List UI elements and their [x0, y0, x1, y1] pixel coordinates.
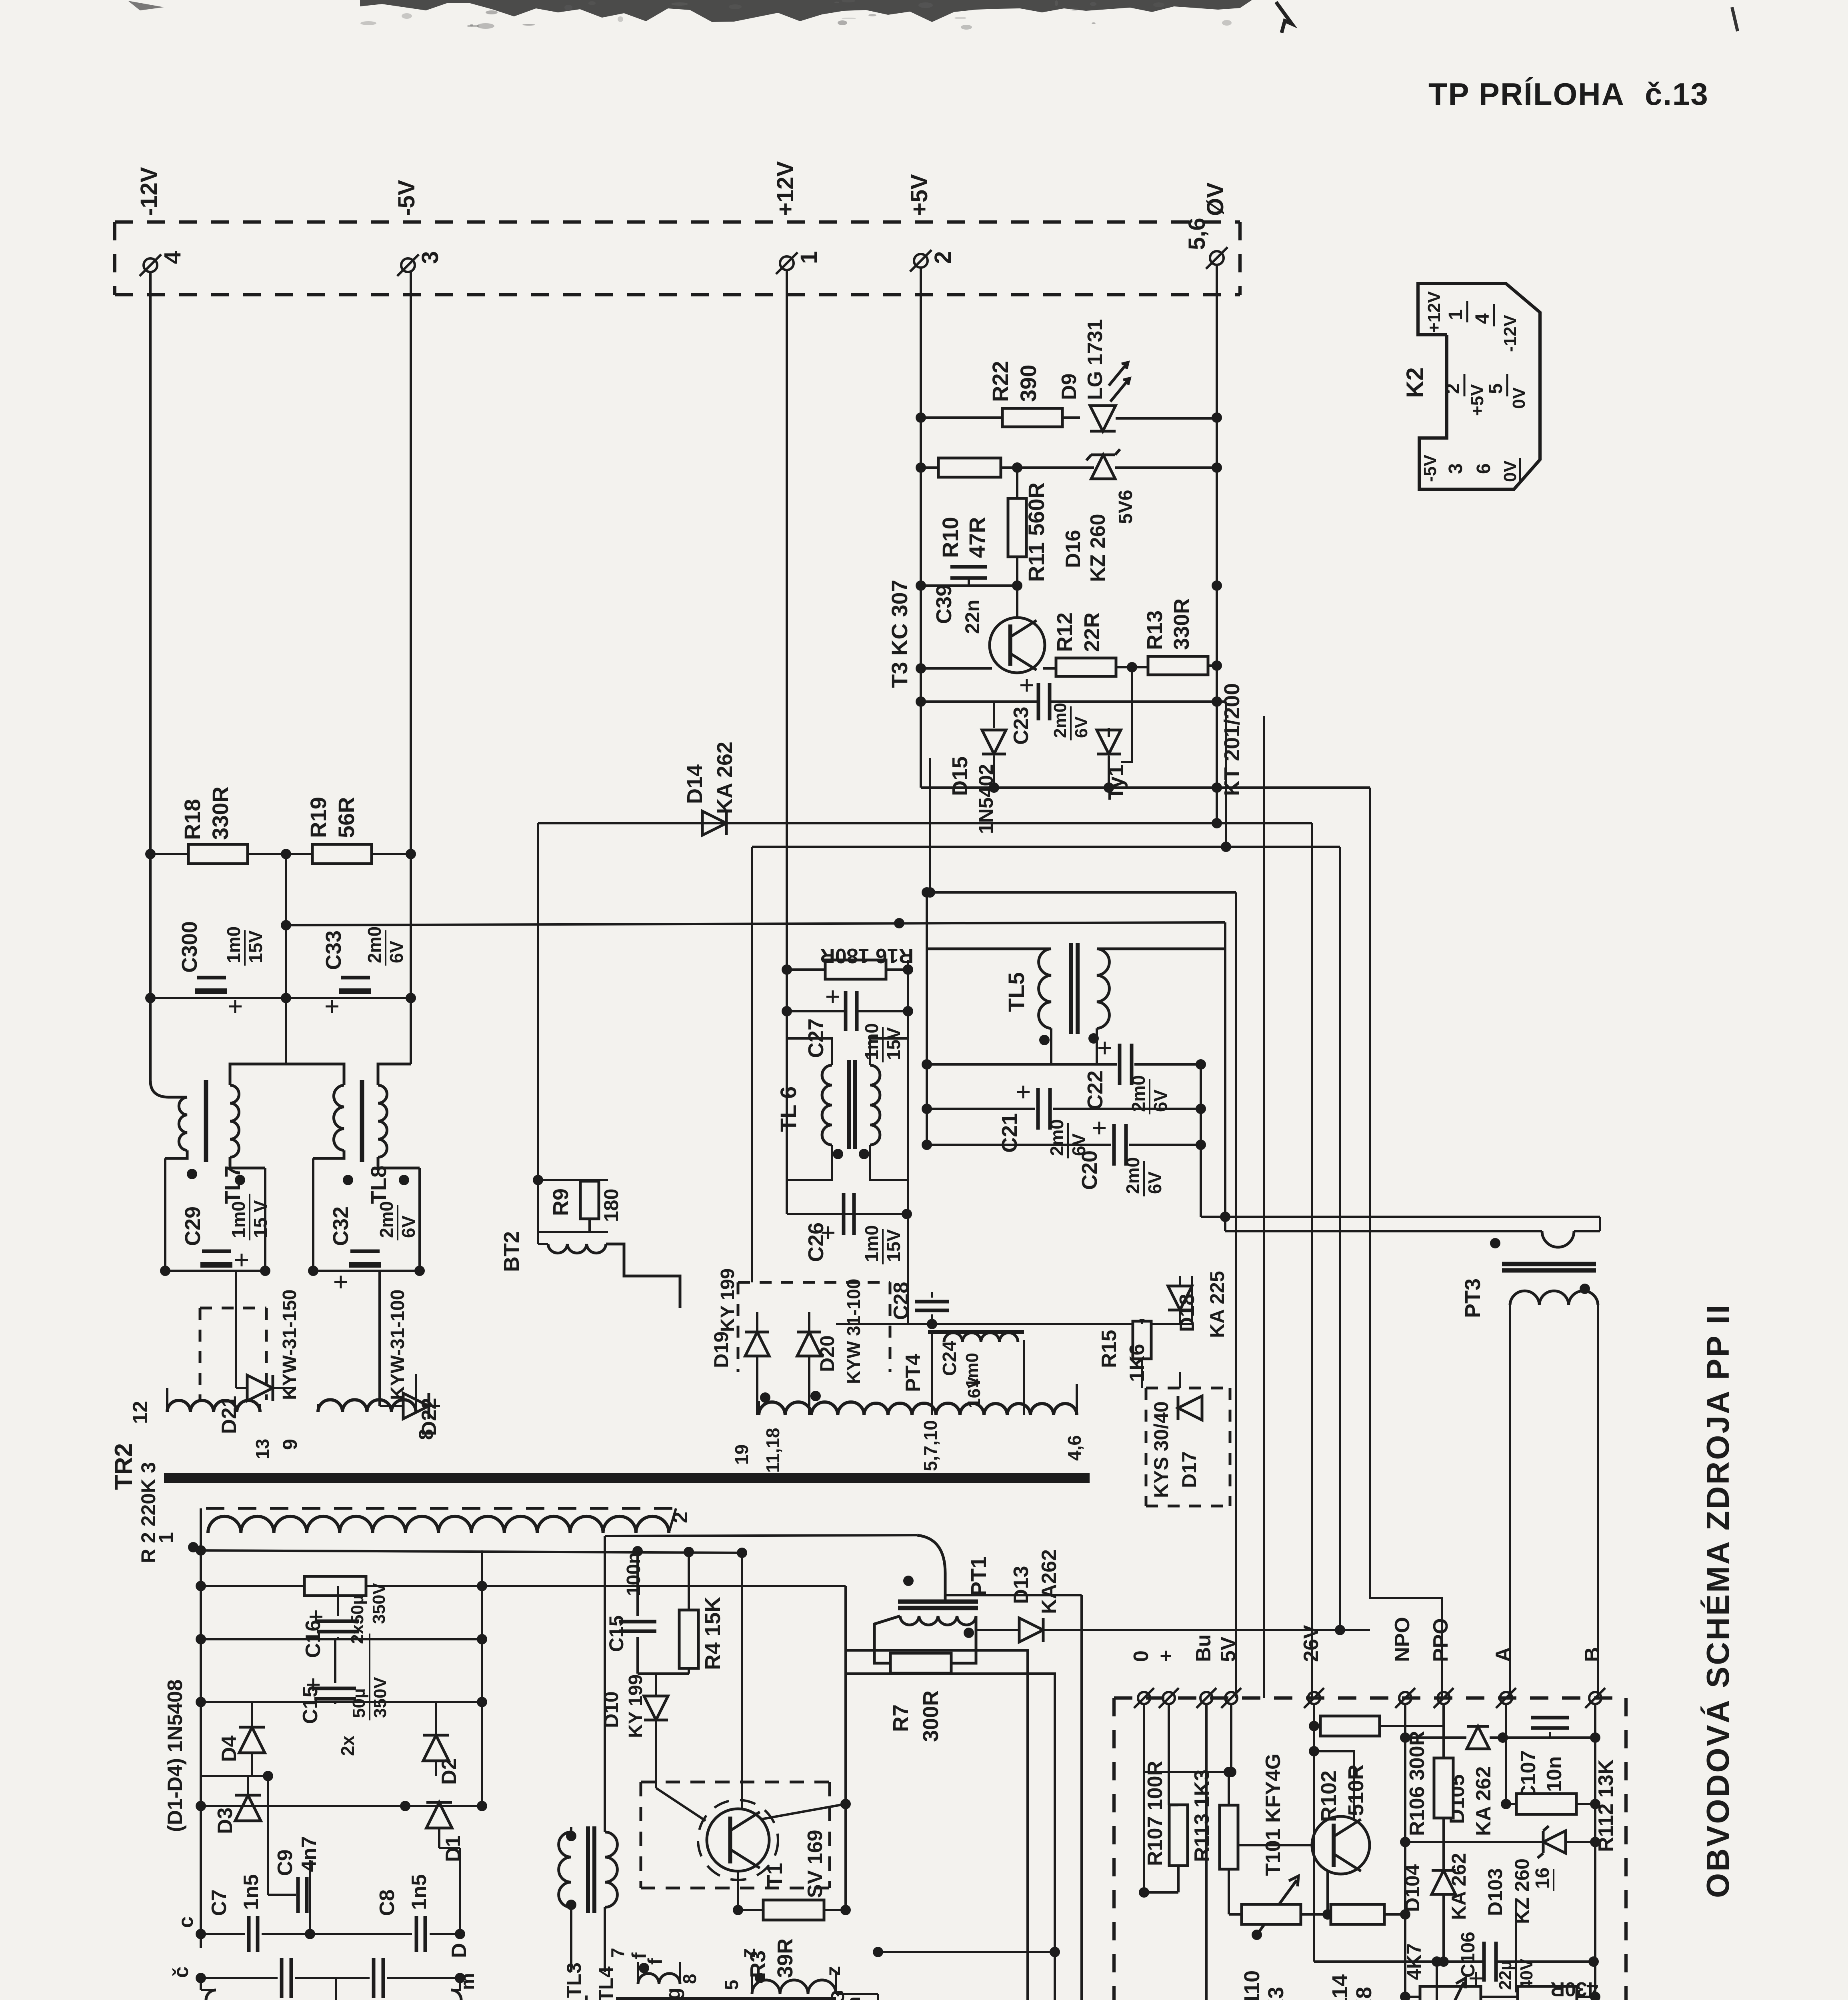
svg-text:330R: 330R	[1170, 598, 1194, 650]
svg-text:D2: D2	[438, 1758, 461, 1785]
svg-text:13: 13	[252, 1439, 273, 1459]
svg-text:22µ: 22µ	[1496, 1960, 1515, 1990]
svg-text:1m0: 1m0	[861, 1225, 882, 1262]
svg-text:1m0: 1m0	[223, 926, 244, 963]
svg-text:OBVODOVÁ SCHÉMA ZDROJA PP: OBVODOVÁ SCHÉMA ZDROJA PP II	[1700, 1303, 1736, 1898]
svg-text:KY 199: KY 199	[625, 1674, 646, 1738]
svg-text:BT: BT	[581, 1995, 605, 2000]
svg-text:2m0: 2m0	[1046, 1119, 1067, 1156]
svg-text:LG 1731: LG 1731	[1084, 319, 1107, 400]
svg-text:8: 8	[679, 1974, 700, 1984]
svg-text:1: 1	[1445, 309, 1466, 320]
svg-text:1: 1	[155, 1532, 177, 1543]
svg-text:PT1: PT1	[967, 1556, 991, 1596]
svg-text:+12V: +12V	[772, 161, 798, 216]
svg-text:D17: D17	[1178, 1451, 1200, 1488]
svg-text:1K6: 1K6	[1126, 1344, 1149, 1382]
svg-text:R4 15K: R4 15K	[701, 1597, 725, 1670]
svg-text:330R: 330R	[208, 786, 233, 840]
svg-text:1m0: 1m0	[228, 1201, 249, 1238]
svg-text:5V: 5V	[1217, 1636, 1240, 1662]
svg-text:2: 2	[930, 251, 956, 264]
svg-text:5,7,10: 5,7,10	[920, 1420, 941, 1471]
svg-text:-12V: -12V	[1500, 314, 1520, 352]
svg-text:C24: C24	[939, 1341, 960, 1376]
svg-text:26V: 26V	[1300, 1625, 1323, 1662]
svg-text:R22: R22	[988, 361, 1013, 402]
svg-text:3K3: 3K3	[1264, 1987, 1288, 2000]
svg-text:0V: 0V	[1509, 387, 1529, 409]
svg-text:12: 12	[129, 1401, 152, 1424]
svg-text:č.13: č.13	[1645, 76, 1709, 112]
svg-text:D20: D20	[816, 1335, 838, 1372]
svg-text:510R: 510R	[1344, 1764, 1368, 1816]
svg-text:D14: D14	[683, 764, 707, 804]
svg-text:D15: D15	[948, 756, 972, 796]
svg-text:2m0: 2m0	[1122, 1157, 1143, 1194]
svg-text:0: 0	[1130, 1650, 1153, 1662]
svg-text:Bu: Bu	[1192, 1634, 1215, 1662]
svg-text:PPO: PPO	[1429, 1618, 1452, 1662]
svg-text:D104: D104	[1401, 1864, 1424, 1912]
svg-text:39R: 39R	[773, 1938, 797, 1978]
svg-text:2x: 2x	[337, 1735, 358, 1756]
svg-text:1m0: 1m0	[861, 1023, 882, 1060]
svg-text:300R: 300R	[919, 1690, 943, 1742]
svg-text:KA262: KA262	[1038, 1549, 1061, 1614]
svg-text:15V: 15V	[245, 930, 266, 963]
svg-text:19: 19	[731, 1444, 752, 1465]
svg-text:R12: R12	[1053, 612, 1077, 652]
svg-text:22R: 22R	[1080, 612, 1104, 652]
svg-text:D4: D4	[218, 1735, 241, 1762]
svg-text:ØV: ØV	[1202, 182, 1228, 216]
svg-text:C39: C39	[932, 584, 956, 624]
svg-text:A: A	[1492, 1647, 1515, 1662]
svg-text:R113 1K3: R113 1K3	[1190, 1770, 1214, 1862]
svg-text:KYS 30/40: KYS 30/40	[1150, 1401, 1172, 1498]
svg-text:9: 9	[279, 1439, 301, 1450]
svg-text:z: z	[822, 1966, 844, 1976]
svg-text:C8: C8	[376, 1890, 399, 1916]
svg-text:D10: D10	[600, 1691, 622, 1728]
svg-text:350V: 350V	[370, 1677, 390, 1718]
svg-text:D13: D13	[1010, 1566, 1033, 1604]
svg-text:TP PRÍLOHA: TP PRÍLOHA	[1428, 76, 1625, 112]
svg-text:15V: 15V	[883, 1229, 904, 1262]
svg-text:6V: 6V	[1072, 716, 1091, 738]
svg-text:C32: C32	[329, 1206, 353, 1246]
svg-text:KY 199: KY 199	[717, 1268, 738, 1332]
svg-text:R19: R19	[306, 797, 331, 838]
svg-text:5,6: 5,6	[1184, 218, 1210, 250]
svg-text:T1: T1	[763, 1863, 787, 1888]
svg-text:180: 180	[600, 1189, 622, 1222]
svg-text:D18: D18	[1176, 1294, 1199, 1332]
svg-text:R11 560R: R11 560R	[1024, 482, 1049, 582]
svg-text:6V: 6V	[1144, 1171, 1165, 1194]
svg-text:KZ 260: KZ 260	[1511, 1858, 1533, 1924]
svg-text:(D1-D4) 1N5408: (D1-D4) 1N5408	[164, 1680, 187, 1832]
svg-text:B: B	[1581, 1647, 1604, 1662]
svg-text:100n: 100n	[623, 1552, 644, 1596]
svg-text:R10: R10	[938, 517, 963, 558]
svg-text:m: m	[843, 1996, 864, 2000]
svg-text:5: 5	[721, 1980, 742, 1990]
svg-text:č: č	[170, 1966, 193, 1978]
svg-text:5: 5	[1485, 383, 1506, 394]
svg-text:R18: R18	[180, 799, 205, 840]
svg-text:c: c	[174, 1916, 198, 1928]
svg-text:R110: R110	[1240, 1970, 1264, 2000]
svg-text:1n5: 1n5	[408, 1874, 431, 1910]
svg-text:C29: C29	[181, 1206, 205, 1246]
svg-text:350V: 350V	[369, 1583, 389, 1624]
svg-text:6V: 6V	[386, 940, 407, 963]
svg-text:-12V: -12V	[136, 167, 162, 216]
svg-text:11,18: 11,18	[762, 1428, 783, 1473]
svg-text:+5V: +5V	[1468, 384, 1487, 416]
svg-text:2: 2	[1442, 383, 1464, 394]
svg-text:D: D	[448, 1943, 471, 1958]
svg-text:3: 3	[417, 251, 443, 264]
svg-text:R9: R9	[549, 1188, 573, 1216]
svg-text:GK8: GK8	[1352, 1987, 1376, 2000]
svg-text:430R: 430R	[1550, 1978, 1598, 2000]
svg-text:4,6: 4,6	[1064, 1435, 1085, 1461]
svg-text:R15: R15	[1098, 1330, 1121, 1368]
svg-text:C22: C22	[1083, 1070, 1107, 1110]
svg-text:C300: C300	[178, 921, 202, 973]
svg-text:KZ 260: KZ 260	[1086, 514, 1110, 582]
svg-text:C21: C21	[998, 1113, 1022, 1153]
svg-text:R102: R102	[1317, 1770, 1341, 1822]
svg-text:2m0: 2m0	[1050, 703, 1070, 738]
svg-text:KA 262: KA 262	[713, 742, 737, 814]
svg-text:390: 390	[1016, 365, 1041, 402]
svg-text:1: 1	[796, 251, 822, 264]
svg-text:2x50µ: 2x50µ	[348, 1595, 367, 1644]
svg-text:KA 262: KA 262	[1448, 1853, 1470, 1920]
svg-text:15 V: 15 V	[250, 1200, 271, 1238]
svg-text:47R: 47R	[964, 517, 990, 558]
svg-text:R114: R114	[1328, 1974, 1352, 2000]
svg-text:3: 3	[1445, 463, 1466, 474]
svg-text:TL3: TL3	[563, 1962, 585, 1998]
svg-text:TL4: TL4	[595, 1966, 617, 2000]
svg-text:D9: D9	[1058, 374, 1081, 400]
svg-text:PT3: PT3	[1461, 1278, 1485, 1318]
svg-text:C28: C28	[890, 1282, 913, 1320]
svg-text:+5V: +5V	[906, 174, 932, 216]
svg-text:2m0: 2m0	[376, 1201, 397, 1238]
svg-text:R7: R7	[889, 1704, 913, 1732]
svg-text:0V: 0V	[1500, 460, 1520, 482]
svg-text:+: +	[1154, 1650, 1178, 1662]
svg-text:R13: R13	[1143, 610, 1167, 650]
svg-text:D103: D103	[1484, 1868, 1506, 1916]
svg-text:KA 225: KA 225	[1206, 1271, 1228, 1338]
svg-text:4K7: 4K7	[1403, 1943, 1425, 1980]
svg-text:56R: 56R	[334, 797, 359, 838]
svg-text:D19: D19	[710, 1331, 732, 1368]
svg-text:2m0: 2m0	[364, 926, 385, 963]
svg-text:C16: C16	[302, 1620, 325, 1658]
svg-text:8: 8	[415, 1429, 437, 1440]
svg-text:TL8: TL8	[367, 1166, 391, 1204]
svg-text:+12V: +12V	[1424, 291, 1444, 333]
svg-text:R107 100R: R107 100R	[1144, 1761, 1167, 1866]
svg-text:5V6: 5V6	[1115, 490, 1136, 524]
svg-text:50µ: 50µ	[349, 1688, 369, 1718]
svg-text:2m0: 2m0	[1128, 1075, 1149, 1112]
svg-text:C23: C23	[1010, 707, 1033, 745]
svg-text:C26: C26	[804, 1222, 828, 1262]
svg-text:-5V: -5V	[394, 180, 420, 216]
svg-text:C15: C15	[605, 1615, 628, 1652]
svg-text:22n: 22n	[961, 600, 984, 634]
svg-text:C20: C20	[1078, 1150, 1102, 1190]
svg-text:1n5: 1n5	[240, 1874, 263, 1910]
svg-text:4n7: 4n7	[298, 1836, 321, 1872]
svg-text:7: 7	[607, 1948, 628, 1958]
svg-text:BT2: BT2	[500, 1231, 524, 1272]
svg-text:T3 KC 307: T3 KC 307	[887, 580, 912, 688]
svg-text:f: f	[644, 1958, 666, 1965]
svg-text:15V: 15V	[883, 1027, 904, 1060]
svg-text:Ty1: Ty1	[1104, 764, 1128, 800]
svg-text:R106 300R: R106 300R	[1406, 1731, 1429, 1836]
svg-text:C33: C33	[322, 930, 346, 970]
svg-text:TL5: TL5	[1004, 972, 1029, 1012]
svg-text:T101 KFY4G: T101 KFY4G	[1262, 1754, 1285, 1876]
svg-text:KA 262: KA 262	[1472, 1766, 1495, 1836]
svg-text:C9: C9	[274, 1850, 297, 1876]
svg-text:TR2: TR2	[110, 1443, 138, 1490]
svg-text:K2: K2	[1402, 367, 1428, 398]
svg-text:R16 180R: R16 180R	[820, 944, 914, 967]
svg-text:KYW 31-100: KYW 31-100	[843, 1279, 864, 1384]
svg-text:C106: C106	[1458, 1932, 1479, 1978]
svg-text:10n: 10n	[1543, 1756, 1566, 1792]
svg-text:KT 201/200: KT 201/200	[1220, 683, 1244, 796]
svg-text:16: 16	[1532, 1868, 1553, 1889]
svg-text:R 2 220K 3: R 2 220K 3	[137, 1462, 160, 1563]
svg-text:-5V: -5V	[1420, 454, 1440, 482]
svg-text:D16: D16	[1062, 530, 1085, 568]
svg-text:C7: C7	[208, 1890, 231, 1916]
svg-text:4: 4	[160, 251, 186, 264]
svg-text:TL 6: TL 6	[776, 1086, 801, 1132]
svg-text:NPO: NPO	[1391, 1617, 1414, 1662]
svg-text:6: 6	[1473, 463, 1494, 474]
svg-text:4: 4	[1472, 313, 1493, 324]
svg-text:PT4: PT4	[902, 1354, 925, 1392]
svg-text:C15: C15	[299, 1686, 322, 1724]
svg-text:D3: D3	[214, 1808, 237, 1834]
svg-text:KYW-31-100: KYW-31-100	[387, 1290, 408, 1400]
svg-text:KYW-31-150: KYW-31-150	[279, 1290, 300, 1400]
svg-text:6V: 6V	[398, 1215, 419, 1238]
svg-text:SV 169: SV 169	[804, 1830, 827, 1898]
